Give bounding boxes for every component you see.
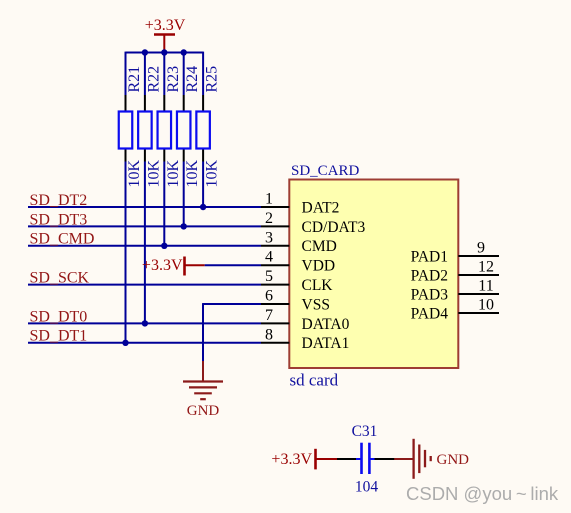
svg-text:10K: 10K xyxy=(165,160,182,188)
svg-text:SD_DT2: SD_DT2 xyxy=(30,192,88,209)
svg-text:10: 10 xyxy=(478,297,494,314)
svg-text:DAT2: DAT2 xyxy=(302,199,340,216)
wire: SD_DT1 to pin 8 xyxy=(28,342,261,344)
wire: R21 top vertical xyxy=(125,52,127,95)
ground GND (below VSS) xyxy=(183,361,223,419)
svg-text:4: 4 xyxy=(265,249,273,266)
svg-text:PAD1: PAD1 xyxy=(411,248,448,265)
junction dot R22-SD_DT0 xyxy=(142,320,148,326)
pin 9 PAD1 xyxy=(411,240,499,266)
svg-text:CLK: CLK xyxy=(302,277,334,294)
svg-text:R21: R21 xyxy=(126,66,143,93)
pin 4 VDD xyxy=(261,249,335,275)
junction dot bus-R23 xyxy=(161,49,167,55)
power port +3.3V (bottom cap) xyxy=(271,449,337,470)
wire: VSS pin 6 to GND corner xyxy=(203,303,261,305)
svg-text:sd card: sd card xyxy=(290,370,339,389)
pin 1 DAT2 xyxy=(261,191,339,217)
resistor R21 xyxy=(119,66,143,188)
svg-text:6: 6 xyxy=(265,288,273,305)
wire: R25 bottom vertical to SD_DT2 xyxy=(202,162,204,208)
pin 2 CD/DAT3 xyxy=(261,210,365,236)
ground GND (bottom right, rotated) xyxy=(394,439,469,479)
svg-text:R24: R24 xyxy=(184,66,201,93)
junction dot R25-SD_DT2 xyxy=(200,204,206,210)
svg-text:GND: GND xyxy=(437,452,470,468)
svg-text:1: 1 xyxy=(265,191,273,208)
svg-text:CD/DAT3: CD/DAT3 xyxy=(302,219,366,236)
junction dot bus-R22 xyxy=(142,49,148,55)
wire: SD_SCK to pin 5 xyxy=(28,284,261,286)
wire: SD_CMD to pin 3 xyxy=(28,245,261,247)
pin 3 CMD xyxy=(261,229,337,255)
svg-text:DATA0: DATA0 xyxy=(302,316,350,333)
wire: +3.3V to C31 xyxy=(337,458,357,460)
wire: R25 top vertical xyxy=(202,52,204,95)
svg-text:SD_CMD: SD_CMD xyxy=(30,231,95,248)
svg-text:7: 7 xyxy=(265,307,273,324)
svg-text:R23: R23 xyxy=(165,66,182,93)
svg-text:GND: GND xyxy=(187,403,220,419)
svg-text:PAD4: PAD4 xyxy=(411,305,449,322)
svg-text:R25: R25 xyxy=(204,66,221,93)
wire: SD_DT3 to pin 2 xyxy=(28,225,261,227)
pin 5 CLK xyxy=(261,268,333,294)
svg-text:SD_DT3: SD_DT3 xyxy=(30,211,88,228)
svg-text:SD_DT0: SD_DT0 xyxy=(30,308,88,325)
resistor R23 xyxy=(158,66,182,188)
wire: top +3.3V bus xyxy=(126,52,204,54)
svg-text:R22: R22 xyxy=(145,66,162,93)
wire: R22 top vertical xyxy=(144,53,146,96)
wire: R24 bottom vertical to SD_DT3 xyxy=(183,162,185,227)
svg-text:5: 5 xyxy=(265,268,273,285)
resistor R25 xyxy=(196,66,220,188)
wire: R24 top vertical xyxy=(183,53,185,96)
svg-text:10K: 10K xyxy=(204,160,221,188)
wire: R22 bottom vertical to SD_DT0 xyxy=(144,162,146,324)
svg-text:10K: 10K xyxy=(126,160,143,188)
wire: +3.3V to pin 4 xyxy=(205,264,261,266)
svg-text:PAD2: PAD2 xyxy=(411,267,448,284)
resistor R24 xyxy=(177,66,201,188)
svg-text:10K: 10K xyxy=(145,160,162,188)
svg-text:SD_DT1: SD_DT1 xyxy=(30,328,88,345)
power port +3.3V (pin 4) xyxy=(142,257,205,276)
svg-text:VDD: VDD xyxy=(302,258,336,275)
svg-text:SD_SCK: SD_SCK xyxy=(30,270,90,287)
wire: VSS vertical down to GND xyxy=(202,303,204,362)
junction dot R24-SD_DT3 xyxy=(181,223,187,229)
svg-text:CMD: CMD xyxy=(302,238,337,255)
svg-text:8: 8 xyxy=(265,326,273,343)
svg-text:+3.3V: +3.3V xyxy=(271,451,312,468)
svg-text:C31: C31 xyxy=(352,423,378,440)
svg-text:12: 12 xyxy=(478,259,494,276)
svg-text:DATA1: DATA1 xyxy=(302,335,350,352)
svg-text:104: 104 xyxy=(355,479,379,496)
svg-text:+3.3V: +3.3V xyxy=(142,257,183,274)
svg-text:11: 11 xyxy=(478,278,493,295)
power port +3.3V (top) xyxy=(145,17,186,53)
svg-text:CSDN @you ~ link: CSDN @you ~ link xyxy=(406,483,559,504)
pin 8 DATA1 xyxy=(261,326,349,352)
junction dot bus-R24 xyxy=(181,49,187,55)
pin 11 PAD3 xyxy=(411,278,499,304)
connector SD_CARD body xyxy=(289,163,458,389)
svg-text:9: 9 xyxy=(477,240,485,257)
resistor R22 xyxy=(138,66,162,188)
wire: C31 to GND xyxy=(375,458,395,460)
pin 7 DATA0 xyxy=(261,307,350,333)
svg-text:SD_CARD: SD_CARD xyxy=(291,163,360,179)
pin 10 PAD4 xyxy=(411,297,499,323)
wire: SD_DT2 to pin 1 xyxy=(28,206,261,208)
junction dot R21-SD_DT1 xyxy=(122,340,128,346)
svg-text:PAD3: PAD3 xyxy=(411,286,449,303)
svg-text:VSS: VSS xyxy=(302,296,330,313)
svg-text:2: 2 xyxy=(265,210,273,227)
wire: SD_DT0 to pin 7 xyxy=(28,322,261,324)
svg-text:+3.3V: +3.3V xyxy=(145,17,186,34)
capacitor C31 xyxy=(352,423,379,496)
junction dot R23-SD_CMD xyxy=(161,243,167,249)
pin 6 VSS xyxy=(261,288,330,314)
svg-text:10K: 10K xyxy=(184,160,201,188)
pin 12 PAD2 xyxy=(411,259,499,285)
wire: R23 bottom vertical to SD_CMD xyxy=(163,162,165,246)
svg-text:3: 3 xyxy=(265,229,273,246)
wire: R21 bottom vertical to SD_DT1 xyxy=(125,162,127,343)
wire: R23 top vertical xyxy=(163,53,165,96)
